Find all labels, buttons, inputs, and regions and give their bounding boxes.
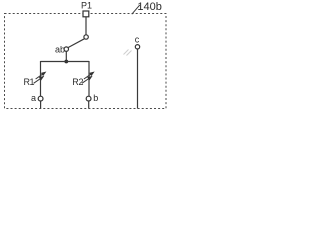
terminal b circle (86, 96, 91, 101)
faint ghost marks (124, 50, 132, 56)
svg-text:P1: P1 (81, 1, 92, 11)
terminal c circle (135, 45, 139, 49)
resistor R1 (variable, arrows) (34, 72, 46, 83)
terminal P1 square (83, 11, 89, 17)
wire ab stem down (65, 51, 67, 61)
svg-text:c: c (135, 34, 140, 44)
svg-text:R1: R1 (24, 77, 35, 87)
wire c to border (137, 49, 139, 109)
wire right branch down (88, 61, 90, 96)
wire horizontal bus (41, 61, 90, 63)
junction dot (64, 60, 68, 64)
wire b to border (88, 101, 90, 108)
switch fixed contact circle (84, 35, 88, 39)
svg-text:a: a (31, 93, 36, 103)
resistor R2 (variable, arrows) (82, 72, 94, 83)
terminal a circle (38, 96, 43, 101)
switch arm wire (68, 39, 84, 48)
leader line to 140b (132, 5, 140, 14)
svg-text:140b: 140b (137, 1, 161, 13)
svg-text:R2: R2 (72, 77, 83, 87)
wire P1 stem (85, 17, 87, 35)
wire left branch down (40, 61, 42, 96)
wire a to border (40, 101, 42, 108)
dashed enclosure border 140b (5, 14, 167, 109)
switch moving contact circle ab (64, 47, 68, 51)
svg-text:b: b (93, 93, 98, 103)
